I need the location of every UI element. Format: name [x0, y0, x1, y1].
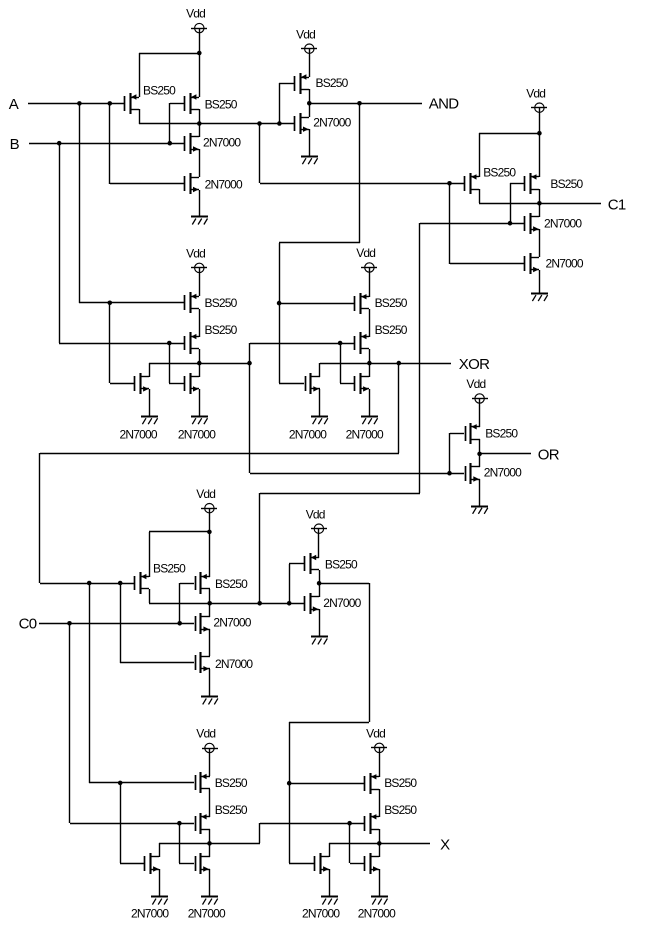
svg-text:Vdd: Vdd	[296, 27, 315, 41]
svg-text:BS250: BS250	[316, 76, 349, 90]
svg-text:BS250: BS250	[384, 803, 417, 817]
svg-text:C0: C0	[19, 616, 37, 633]
svg-text:AND: AND	[429, 96, 459, 113]
svg-text:2N7000: 2N7000	[302, 907, 340, 921]
svg-text:2N7000: 2N7000	[213, 615, 251, 629]
svg-text:X: X	[440, 836, 450, 853]
svg-text:BS250: BS250	[483, 165, 516, 179]
svg-text:Vdd: Vdd	[466, 377, 485, 391]
svg-text:2N7000: 2N7000	[346, 428, 384, 442]
svg-text:BS250: BS250	[375, 296, 408, 310]
svg-text:Vdd: Vdd	[306, 507, 325, 521]
svg-text:BS250: BS250	[205, 296, 238, 310]
svg-text:2N7000: 2N7000	[546, 257, 584, 271]
svg-text:BS250: BS250	[153, 562, 186, 576]
svg-text:2N7000: 2N7000	[358, 907, 396, 921]
svg-text:2N7000: 2N7000	[203, 135, 241, 149]
svg-text:BS250: BS250	[205, 323, 238, 337]
svg-text:2N7000: 2N7000	[215, 657, 253, 671]
svg-text:Vdd: Vdd	[196, 487, 215, 501]
svg-text:2N7000: 2N7000	[544, 216, 582, 230]
svg-text:2N7000: 2N7000	[205, 177, 243, 191]
svg-text:Vdd: Vdd	[186, 247, 205, 261]
svg-text:B: B	[10, 136, 20, 153]
svg-text:2N7000: 2N7000	[289, 428, 327, 442]
svg-text:BS250: BS250	[205, 98, 238, 112]
svg-text:BS250: BS250	[485, 426, 518, 440]
svg-text:Vdd: Vdd	[356, 246, 375, 260]
svg-text:Vdd: Vdd	[186, 7, 205, 21]
svg-text:BS250: BS250	[550, 177, 583, 191]
svg-text:2N7000: 2N7000	[484, 466, 522, 480]
svg-text:BS250: BS250	[215, 776, 248, 790]
svg-text:Vdd: Vdd	[526, 86, 545, 100]
svg-text:BS250: BS250	[384, 776, 417, 790]
svg-text:Vdd: Vdd	[366, 727, 385, 741]
svg-text:BS250: BS250	[143, 84, 176, 98]
svg-text:2N7000: 2N7000	[188, 907, 226, 921]
svg-text:Vdd: Vdd	[196, 727, 215, 741]
svg-text:BS250: BS250	[375, 323, 408, 337]
svg-text:2N7000: 2N7000	[323, 596, 361, 610]
svg-text:BS250: BS250	[325, 557, 358, 571]
svg-text:A: A	[9, 96, 19, 113]
svg-text:OR: OR	[538, 446, 560, 463]
svg-text:2N7000: 2N7000	[131, 907, 169, 921]
svg-text:BS250: BS250	[215, 577, 248, 591]
svg-text:2N7000: 2N7000	[120, 428, 158, 442]
svg-text:XOR: XOR	[459, 356, 490, 373]
svg-text:2N7000: 2N7000	[178, 428, 216, 442]
svg-text:BS250: BS250	[215, 803, 248, 817]
svg-text:C1: C1	[608, 196, 626, 213]
svg-text:2N7000: 2N7000	[313, 115, 351, 129]
